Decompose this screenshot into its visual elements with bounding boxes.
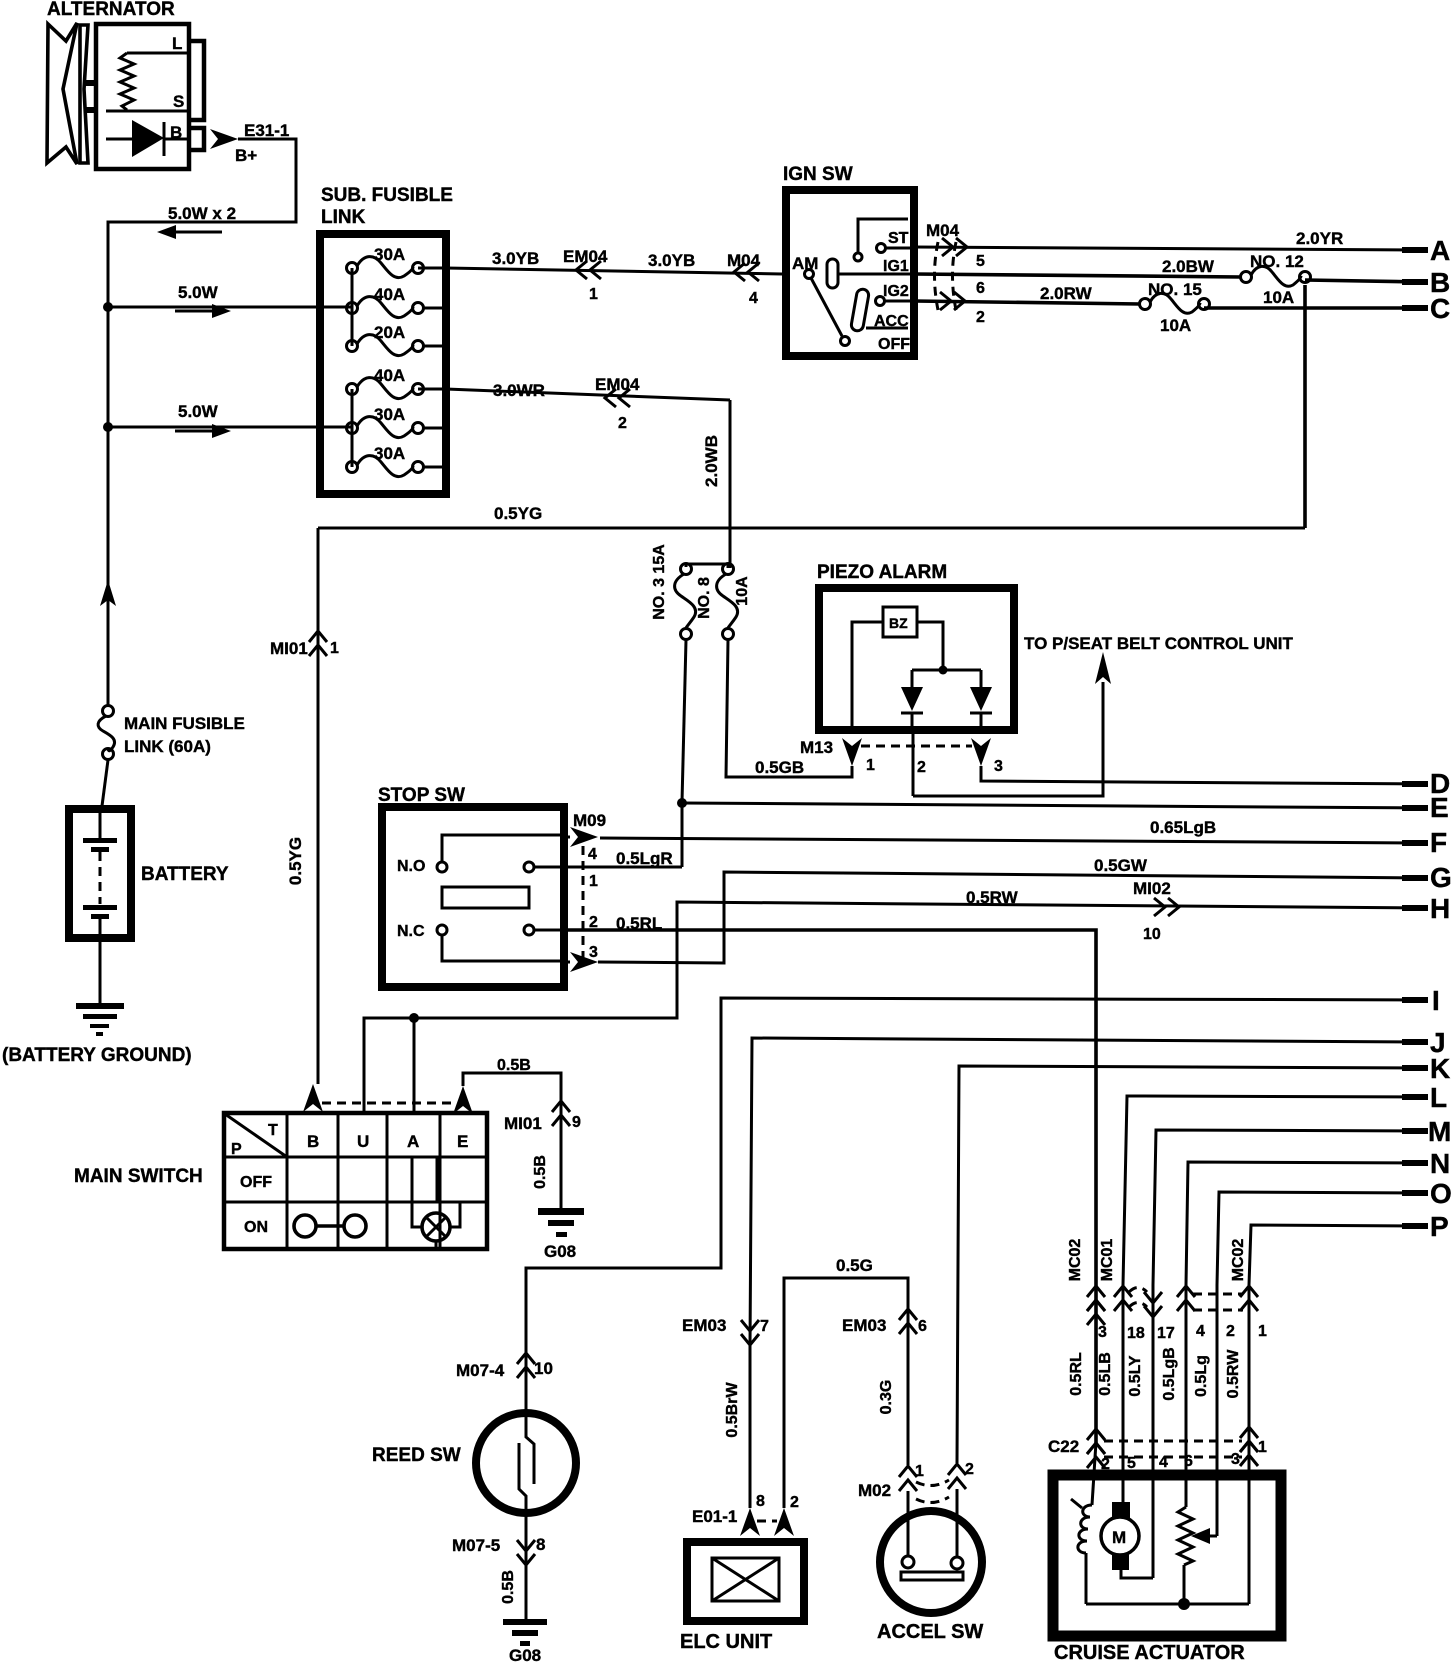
- wire line C right segment: [1204, 306, 1426, 310]
- cruise actuator bottom bus: [1086, 1603, 1249, 1606]
- svg-text:M: M: [1112, 1528, 1126, 1547]
- connector M09 pin 1: [564, 849, 682, 890]
- wire 0.5LgB vertical: [1161, 1285, 1186, 1507]
- wire line I to reed switch: [526, 998, 1426, 1412]
- svg-text:1: 1: [1258, 1323, 1267, 1340]
- svg-text:0.5RL: 0.5RL: [616, 914, 662, 933]
- reed switch: [476, 1413, 576, 1513]
- svg-text:3: 3: [994, 758, 1003, 775]
- main switch row ON: [244, 1219, 268, 1236]
- accel sw label: [877, 1621, 983, 1643]
- svg-text:17: 17: [1157, 1325, 1175, 1342]
- svg-text:0.5BrW: 0.5BrW: [724, 1382, 741, 1438]
- svg-text:40A: 40A: [374, 366, 405, 385]
- svg-text:5: 5: [976, 253, 985, 270]
- cruise actuator wiper arrow: [1191, 1528, 1217, 1544]
- svg-text:2: 2: [790, 1494, 799, 1511]
- wire linking fuse tops: [686, 564, 728, 568]
- wire line E: [682, 803, 1426, 808]
- svg-text:F: F: [1430, 827, 1447, 858]
- stop sw N.C contact: [397, 923, 560, 961]
- terminal K: [1402, 1053, 1450, 1084]
- alternator pulley: [47, 23, 97, 164]
- svg-text:N: N: [1430, 1148, 1450, 1179]
- main switch B column entry arrow: [303, 1084, 323, 1112]
- connector M04 pin 4: [727, 251, 761, 307]
- wire 0.5Lg vertical: [1193, 1285, 1217, 1536]
- wires into accel sw: [908, 1489, 957, 1557]
- svg-text:0.5GB: 0.5GB: [755, 758, 804, 777]
- svg-text:1: 1: [915, 1463, 924, 1480]
- svg-text:0.5B: 0.5B: [497, 1057, 531, 1074]
- svg-text:OFF: OFF: [240, 1174, 272, 1191]
- terminal M: [1402, 1116, 1451, 1147]
- wire piezo pin 2 to seat belt unit: [913, 682, 1103, 796]
- connector M02 pin 2: [948, 1461, 974, 1489]
- connector M09 pin 4 arrow: [564, 811, 606, 863]
- svg-text:IGN SW: IGN SW: [783, 164, 853, 185]
- svg-text:0.5LgB: 0.5LgB: [1161, 1347, 1178, 1400]
- connector M13 pin 2: [913, 730, 926, 796]
- svg-text:EM03: EM03: [842, 1316, 886, 1335]
- main switch connector dashed line: [322, 1102, 453, 1105]
- alternator B terminal stub: [189, 128, 204, 150]
- wire 0.5LY vertical: [1127, 1285, 1153, 1578]
- cruise actuator coil L1: [1071, 1442, 1096, 1604]
- ign sw ACC terminal: [866, 313, 909, 330]
- battery box: [69, 809, 131, 938]
- svg-text:8: 8: [536, 1535, 545, 1554]
- connector M13 dashed line: [861, 745, 972, 748]
- connector C22 right arrow: [1240, 1427, 1267, 1466]
- wire line J to ELC unit: [750, 1038, 1426, 1346]
- svg-text:ON: ON: [244, 1219, 268, 1236]
- junction dot node E: [677, 798, 687, 808]
- svg-text:B+: B+: [235, 146, 257, 165]
- connector MI01 pin 1: [270, 631, 339, 658]
- svg-text:ELC UNIT: ELC UNIT: [680, 1631, 772, 1653]
- fuse NO.12 10A: [1241, 252, 1311, 307]
- wire 0.5B to ground reed: [500, 1513, 526, 1620]
- svg-text:OFF: OFF: [878, 336, 910, 353]
- svg-text:MAIN FUSIBLE: MAIN FUSIBLE: [124, 714, 245, 733]
- svg-text:0.5B: 0.5B: [500, 1570, 517, 1604]
- svg-text:40A: 40A: [374, 285, 405, 304]
- svg-text:K: K: [1430, 1053, 1450, 1084]
- svg-text:LINK: LINK: [321, 207, 366, 228]
- connector MC01 pin 18: [1099, 1239, 1145, 1342]
- wire line D from piezo pin 3: [981, 766, 1426, 784]
- alternator U1 body: [96, 24, 189, 169]
- svg-text:5: 5: [1127, 1455, 1136, 1472]
- terminal L: [1402, 1082, 1447, 1113]
- ground G08 reed: [503, 1619, 547, 1662]
- fuse 20A row3: [347, 323, 424, 356]
- svg-text:0.5G: 0.5G: [836, 1256, 873, 1275]
- connector M13 pin 3 arrow: [971, 738, 1003, 775]
- wire 3.0YB from fuse row1 to IGN SW: [418, 249, 782, 274]
- svg-text:0.5LgR: 0.5LgR: [616, 849, 673, 868]
- alternator L-S external bracket: [189, 41, 204, 120]
- alternator rotor field coil (resistor zigzag): [106, 53, 187, 111]
- stop sw N.O contact: [397, 835, 560, 875]
- svg-text:MAIN SWITCH: MAIN SWITCH: [74, 1166, 203, 1187]
- svg-text:NO. 12: NO. 12: [1250, 252, 1304, 271]
- svg-text:3.0YB: 3.0YB: [492, 249, 539, 268]
- connector M09 pin 2 wire 0.5RL: [564, 914, 1096, 1444]
- main switch header E: [457, 1132, 468, 1151]
- wire 0.3G to M02 pin 1: [878, 1334, 908, 1465]
- svg-text:0.3G: 0.3G: [878, 1380, 895, 1415]
- svg-text:6: 6: [1184, 1453, 1193, 1470]
- junction dot node H: [409, 1013, 419, 1023]
- terminal O: [1402, 1178, 1452, 1209]
- wire line N: [1186, 1162, 1426, 1285]
- main switch header U: [357, 1132, 369, 1151]
- svg-text:2.0YR: 2.0YR: [1296, 229, 1343, 248]
- main switch E column entry arrow: [453, 1086, 473, 1114]
- svg-text:TO P/SEAT BELT CONTROL UNIT: TO P/SEAT BELT CONTROL UNIT: [1024, 634, 1293, 653]
- wire battery to ground: [99, 938, 102, 1003]
- alternator terminal S label: [173, 92, 184, 111]
- svg-text:2.0WB: 2.0WB: [702, 435, 721, 487]
- fuse NO.15 10A: [1140, 280, 1210, 335]
- svg-text:1: 1: [866, 757, 875, 774]
- stop sw box: [382, 807, 564, 987]
- wire 0.5YG horizontal: [318, 504, 1305, 528]
- fuse 30A row5: [347, 405, 424, 438]
- ign sw ST terminal: [877, 230, 915, 253]
- svg-text:G08: G08: [544, 1242, 576, 1261]
- wire line G 0.5GW from stop sw pin 3: [598, 856, 1426, 963]
- flow arrow left on 5.0W x 2 wire: [157, 225, 222, 239]
- connector C22 pin 6: [1184, 1453, 1193, 1470]
- connector M04 pin 2: [940, 292, 985, 326]
- svg-text:4: 4: [1159, 1454, 1168, 1471]
- svg-text:0.5YG: 0.5YG: [494, 504, 542, 523]
- svg-text:3: 3: [1098, 1324, 1107, 1341]
- svg-text:MC01: MC01: [1099, 1239, 1116, 1282]
- svg-text:M07-5: M07-5: [452, 1536, 500, 1555]
- terminal D: [1402, 768, 1450, 799]
- connector C22 pin 3: [1231, 1451, 1240, 1468]
- fuse 40A row2: [347, 285, 424, 318]
- connector E01-1 pin 8 arrow: [692, 1493, 765, 1536]
- alternator terminal B label: [170, 123, 182, 142]
- svg-text:0.5B: 0.5B: [532, 1155, 549, 1189]
- main fusible link wire from junction: [107, 427, 110, 706]
- main switch lamp: [422, 1213, 450, 1241]
- svg-text:E01-1: E01-1: [692, 1507, 737, 1526]
- svg-text:0.5RW: 0.5RW: [1225, 1349, 1242, 1399]
- wire 0.5GB from fuse NO.8 to piezo pin 1: [726, 640, 852, 777]
- svg-text:BZ: BZ: [889, 615, 908, 631]
- svg-text:10A: 10A: [1263, 288, 1294, 307]
- fuse NO.8 10A: [696, 564, 751, 640]
- elc unit inner block: [712, 1558, 779, 1601]
- wire 0.5G from ELC pin 2 to accel branch: [784, 1256, 908, 1508]
- svg-text:E: E: [1430, 792, 1449, 823]
- wire from alternator B+ to junction (5.0W x 2): [108, 139, 296, 307]
- svg-text:18: 18: [1127, 1325, 1145, 1342]
- connector C22 dashed lines: [1104, 1441, 1242, 1457]
- svg-text:MI02: MI02: [1133, 879, 1171, 898]
- svg-text:2: 2: [976, 309, 985, 326]
- svg-text:5.0W x 2: 5.0W x 2: [168, 204, 236, 223]
- svg-text:E: E: [457, 1132, 468, 1151]
- wire line B right segment: [1305, 280, 1426, 282]
- main fusible link fuse 60A: [98, 706, 245, 760]
- main switch header P: [231, 1141, 242, 1158]
- wire from fuse NO.12 down to 0.5YG: [1303, 285, 1307, 528]
- svg-text:M09: M09: [573, 811, 606, 830]
- svg-text:ST: ST: [888, 230, 909, 247]
- svg-text:10A: 10A: [1160, 316, 1191, 335]
- wire 0.5BrW to ELC pin 8: [724, 1346, 750, 1508]
- connector MC02 pin 4: [1177, 1286, 1205, 1340]
- svg-text:MI01: MI01: [504, 1114, 542, 1133]
- svg-text:30A: 30A: [374, 245, 405, 264]
- ign sw contact capsule 1: [827, 259, 838, 288]
- connector MI01 pin 9: [504, 1101, 581, 1133]
- svg-text:S: S: [173, 92, 184, 111]
- svg-text:I: I: [1432, 985, 1440, 1016]
- connector MC01 dashed bridge: [1129, 1288, 1147, 1308]
- svg-text:3: 3: [589, 944, 598, 961]
- terminal I: [1402, 985, 1440, 1016]
- svg-text:0.5RL: 0.5RL: [1068, 1352, 1085, 1396]
- terminal A: [1402, 235, 1450, 266]
- fuse NO.3 15A: [651, 544, 696, 640]
- svg-text:NO. 3 15A: NO. 3 15A: [651, 544, 668, 620]
- piezo alarm label: [817, 562, 947, 583]
- svg-text:4: 4: [749, 290, 758, 307]
- connector EM03 pin 6: [842, 1309, 927, 1335]
- connector C22 pin 5: [1127, 1455, 1136, 1472]
- svg-text:MC02: MC02: [1067, 1239, 1084, 1282]
- junction dot node 1: [103, 302, 113, 312]
- to p/seat belt control unit arrow: [1024, 634, 1293, 684]
- ign sw contact capsule 2: [850, 288, 869, 331]
- connector EM04 pin 1: [563, 247, 608, 303]
- svg-text:B: B: [307, 1132, 319, 1151]
- svg-text:P: P: [231, 1141, 242, 1158]
- svg-text:9: 9: [572, 1114, 581, 1131]
- connector M02 dashed arcs: [916, 1480, 949, 1503]
- svg-text:2: 2: [589, 914, 598, 931]
- ign sw ST return contact: [854, 219, 908, 261]
- svg-text:H: H: [1430, 893, 1450, 924]
- svg-text:A: A: [1430, 235, 1450, 266]
- battery label: [141, 864, 229, 885]
- fuse left bus top group: [351, 268, 354, 346]
- wire line F 0.65LgB: [600, 818, 1426, 843]
- svg-text:EM04: EM04: [563, 247, 608, 266]
- svg-text:3: 3: [1231, 1451, 1240, 1468]
- sub fusible link label: [321, 185, 453, 228]
- svg-text:5.0W: 5.0W: [178, 283, 219, 302]
- connector M07-5 pin 8: [452, 1535, 545, 1565]
- svg-text:N.C: N.C: [397, 923, 425, 940]
- wire 0.5RW vertical: [1225, 1285, 1249, 1604]
- connector MI02 pin 10: [1133, 879, 1179, 943]
- fuse right stubs: [424, 308, 442, 467]
- ign sw AM terminal: [792, 254, 818, 279]
- svg-text:30A: 30A: [374, 444, 405, 463]
- svg-text:N.O: N.O: [397, 858, 425, 875]
- elc unit box: [687, 1542, 804, 1621]
- connector M04 output dashed braces: [926, 221, 960, 310]
- piezo internal wiring: [852, 622, 981, 730]
- wire label 2.0WB: [702, 435, 721, 487]
- wire 0.5RL label: [1068, 1352, 1085, 1396]
- ground G08 main switch: [538, 1208, 584, 1261]
- connector E31-1 arrow: [210, 121, 289, 165]
- svg-text:6: 6: [918, 1318, 927, 1335]
- terminal F: [1402, 827, 1447, 858]
- svg-text:(BATTERY GROUND): (BATTERY GROUND): [2, 1045, 192, 1066]
- svg-text:7: 7: [760, 1318, 769, 1335]
- ign sw IG1 terminal: [838, 258, 914, 275]
- svg-text:U: U: [357, 1132, 369, 1151]
- main switch header B: [307, 1132, 319, 1151]
- terminal N: [1402, 1148, 1450, 1179]
- cruise actuator label: [1054, 1642, 1245, 1662]
- svg-text:M: M: [1428, 1116, 1451, 1147]
- svg-text:MI01: MI01: [270, 639, 308, 658]
- fuse left bus bottom group: [351, 389, 354, 467]
- svg-text:4: 4: [1196, 1323, 1205, 1340]
- svg-text:2.0RW: 2.0RW: [1040, 284, 1093, 303]
- svg-text:8: 8: [756, 1493, 765, 1510]
- ign sw label: [783, 164, 853, 185]
- stop sw label: [378, 785, 465, 806]
- wire 5.0W lower branch: [108, 402, 352, 427]
- svg-text:A: A: [407, 1132, 419, 1151]
- elc unit label: [680, 1631, 772, 1653]
- svg-text:B: B: [170, 123, 182, 142]
- svg-text:3.0WR: 3.0WR: [493, 381, 545, 400]
- main switch row OFF: [240, 1174, 272, 1191]
- cruise actuator box: [1053, 1475, 1281, 1636]
- svg-text:M04: M04: [727, 251, 761, 270]
- svg-text:IG1: IG1: [883, 258, 909, 275]
- svg-text:L: L: [1430, 1082, 1447, 1113]
- battery ground label: [2, 1045, 192, 1066]
- svg-text:M02: M02: [858, 1481, 891, 1500]
- terminal G: [1402, 862, 1452, 893]
- svg-text:EM03: EM03: [682, 1316, 726, 1335]
- connector M09 dashed line: [582, 846, 585, 958]
- svg-text:2: 2: [917, 759, 926, 776]
- junction dot piezo: [939, 666, 948, 675]
- connector MC02 pin 2: [1226, 1323, 1235, 1340]
- connector MC01 pin 17: [1144, 1292, 1175, 1342]
- svg-text:PIEZO ALARM: PIEZO ALARM: [817, 562, 947, 583]
- svg-text:ACCEL SW: ACCEL SW: [877, 1621, 983, 1643]
- connector MC02 pin 1: [1230, 1239, 1267, 1340]
- wire line P: [1249, 1225, 1426, 1285]
- wire 0.5B from E column to MI01: [463, 1057, 561, 1126]
- terminal H: [1402, 893, 1450, 924]
- svg-text:10: 10: [534, 1359, 553, 1378]
- connector M02 pin 1: [858, 1463, 924, 1500]
- svg-text:EM04: EM04: [595, 375, 640, 394]
- svg-text:2: 2: [618, 415, 627, 432]
- terminal J: [1402, 1027, 1446, 1058]
- connector C22 pin 2: [1101, 1456, 1110, 1473]
- svg-text:0.5RW: 0.5RW: [966, 888, 1019, 907]
- connector MC02 pin 3: [1067, 1239, 1107, 1341]
- svg-text:30A: 30A: [374, 405, 405, 424]
- svg-text:1: 1: [589, 286, 598, 303]
- svg-text:P: P: [1430, 1211, 1449, 1242]
- svg-text:LINK (60A): LINK (60A): [124, 737, 211, 756]
- alternator label: [47, 0, 175, 20]
- svg-text:BATTERY: BATTERY: [141, 864, 229, 885]
- main switch table: [224, 1113, 487, 1249]
- svg-text:MC02: MC02: [1230, 1239, 1247, 1282]
- svg-text:C22: C22: [1048, 1437, 1079, 1456]
- piezo alarm box: [819, 588, 1014, 730]
- connector EM03 pin 7: [682, 1316, 769, 1345]
- main switch lamp wiring: [412, 1157, 460, 1249]
- wire 0.5LB vertical: [1097, 1285, 1123, 1502]
- connector C22 pin 4: [1159, 1454, 1168, 1471]
- cruise actuator servo resistor R1: [1178, 1507, 1193, 1604]
- svg-text:SUB. FUSIBLE: SUB. FUSIBLE: [321, 185, 453, 206]
- connector M04 pin 5: [942, 238, 985, 270]
- svg-text:NO. 8: NO. 8: [696, 577, 713, 619]
- svg-text:O: O: [1430, 1178, 1452, 1209]
- piezo buzzer BZ: [883, 607, 917, 637]
- wire 3.0WR from fuse row4: [418, 381, 730, 568]
- accel switch: [880, 1511, 982, 1613]
- ign sw IG2 terminal: [876, 283, 915, 306]
- svg-text:0.5GW: 0.5GW: [1094, 856, 1148, 875]
- wire from fuse NO.3 down to node E: [682, 640, 686, 802]
- wire line L: [1123, 1096, 1426, 1285]
- svg-text:4: 4: [588, 846, 597, 863]
- svg-text:C: C: [1430, 293, 1450, 324]
- main switch ON contacts B-U: [294, 1215, 366, 1237]
- piezo diode 1: [901, 687, 923, 730]
- svg-text:G: G: [1430, 862, 1452, 893]
- svg-text:10: 10: [1143, 926, 1161, 943]
- svg-text:2: 2: [1226, 1323, 1235, 1340]
- svg-text:CRUISE ACTUATOR: CRUISE ACTUATOR: [1054, 1642, 1245, 1662]
- svg-text:IG2: IG2: [883, 283, 909, 300]
- junction dot bus: [1178, 1598, 1190, 1610]
- connector M07-4 pin 10: [456, 1353, 553, 1380]
- svg-text:M07-4: M07-4: [456, 1361, 505, 1380]
- svg-text:STOP SW: STOP SW: [378, 785, 465, 806]
- battery ground symbol: [76, 1003, 124, 1036]
- fuse 30A row1: [347, 245, 424, 278]
- wire 2.0RW line C left segment: [914, 284, 1140, 304]
- flow arrow right on upper 5.0W: [175, 304, 231, 318]
- connector M09 pin 3 arrow: [564, 944, 598, 972]
- junction dot node 2: [103, 422, 113, 432]
- main switch label: [74, 1166, 203, 1187]
- svg-text:L: L: [172, 34, 182, 53]
- wire line O: [1217, 1192, 1426, 1285]
- svg-text:G08: G08: [509, 1646, 541, 1662]
- svg-text:ALTERNATOR: ALTERNATOR: [47, 0, 175, 20]
- fuse 30A row6: [347, 444, 424, 477]
- svg-text:6: 6: [976, 280, 985, 297]
- svg-text:3.0YB: 3.0YB: [648, 251, 695, 270]
